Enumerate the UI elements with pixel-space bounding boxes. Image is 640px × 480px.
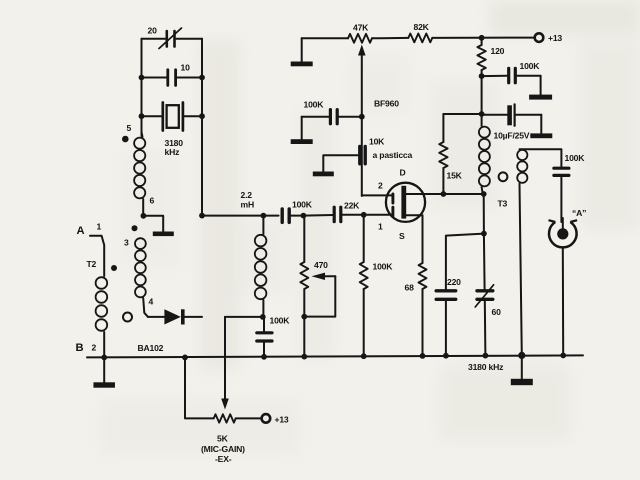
- svg-text:10: 10: [181, 63, 191, 73]
- wire between 47K 82K: [372, 37, 408, 39]
- svg-text:2.2: 2.2: [241, 190, 253, 200]
- label S: [399, 231, 405, 241]
- label 5K: [217, 434, 229, 444]
- label EX: [215, 454, 232, 464]
- label pin 5: [127, 123, 132, 133]
- label MIC-GAIN: [201, 444, 245, 454]
- label 22K: [344, 201, 360, 211]
- svg-text:470: 470: [314, 260, 328, 270]
- label pin 2: [92, 343, 97, 353]
- label pin 4: [149, 297, 154, 307]
- svg-text:100K: 100K: [292, 200, 313, 210]
- ground bus 3180: [511, 355, 533, 385]
- node junction right crystal: [199, 113, 205, 119]
- label BA102: [138, 343, 164, 353]
- node junction oscillator out: [199, 213, 205, 219]
- node tap junction 6: [141, 213, 147, 219]
- label T2: [87, 259, 97, 269]
- potentiometer 5K MIC-GAIN: [214, 414, 261, 422]
- source lead: [406, 215, 422, 263]
- svg-text:“A”: “A”: [572, 208, 586, 218]
- svg-text:BA102: BA102: [138, 343, 164, 353]
- capacitor 10uF/25V: [482, 104, 542, 126]
- ground tap: [153, 232, 174, 237]
- polarity dot pin3: [132, 225, 138, 231]
- label 10K: [369, 137, 385, 147]
- label 3180 kHz bus: [468, 362, 503, 372]
- label +13 mic: [275, 415, 289, 425]
- label 100K output: [565, 153, 586, 163]
- svg-text:10µF/25V: 10µF/25V: [494, 131, 530, 141]
- ground 100K gate2: [291, 117, 313, 144]
- label 120: [491, 46, 505, 56]
- node junction 100K gate1 bus: [361, 353, 367, 359]
- resistor 120: [477, 38, 485, 76]
- gate2 lead: [362, 194, 392, 196]
- node junction drain 15K: [441, 191, 447, 197]
- svg-text:15K: 15K: [447, 171, 463, 181]
- wiper 470: [304, 273, 335, 317]
- node junction T3 prim bottom: [481, 191, 487, 197]
- resistor 82K: [408, 34, 432, 43]
- transistor channel bar: [401, 186, 406, 219]
- inductor T2 winding 5-6: [134, 132, 145, 216]
- wire top of 15K T3: [443, 113, 481, 115]
- wire drain node down: [483, 194, 485, 234]
- scan paper tone: [100, 0, 640, 455]
- svg-text:B: B: [76, 342, 84, 354]
- connector A microphone: [549, 220, 578, 247]
- node junction 470 bottom: [301, 314, 307, 320]
- svg-text:5K: 5K: [217, 434, 229, 444]
- svg-text:6: 6: [150, 196, 155, 206]
- node junction 470 top: [301, 213, 307, 219]
- svg-text:2: 2: [92, 343, 97, 353]
- svg-text:-EX-: -EX-: [215, 454, 232, 464]
- phasing circle T2: [123, 313, 132, 322]
- label 100K c1: [292, 200, 313, 210]
- node junction 2.2mH top: [261, 213, 267, 219]
- label pin 3: [124, 238, 129, 248]
- svg-text:100K: 100K: [373, 262, 394, 272]
- wire T3 sec top: [520, 149, 562, 166]
- node junction 470 bus: [301, 354, 307, 360]
- svg-text:100K: 100K: [270, 316, 291, 326]
- wire terminal A lead: [90, 236, 104, 276]
- label 100K supply: [520, 61, 541, 71]
- wire 82K to +13: [432, 37, 534, 39]
- resistor 15K: [439, 114, 447, 194]
- svg-text:+13: +13: [275, 415, 289, 425]
- inductor T2 winding 3-4: [135, 238, 148, 317]
- wire 47K left leg: [302, 37, 349, 39]
- node junction 120 bottom mid: [479, 111, 485, 117]
- ground pasticca: [313, 172, 334, 177]
- ground B: [93, 357, 115, 387]
- svg-text:82K: 82K: [414, 22, 430, 32]
- wire to 22K: [303, 214, 332, 217]
- svg-text:20: 20: [148, 26, 158, 36]
- wire mic into connector: [562, 218, 564, 229]
- label 470: [314, 260, 328, 270]
- node junction 100K bus: [261, 354, 267, 360]
- label pin 6: [150, 196, 155, 206]
- polarity dot pin5: [122, 136, 129, 143]
- ground 100K supply: [529, 76, 552, 100]
- svg-text:A: A: [77, 225, 85, 237]
- potentiometer 470: [300, 216, 308, 317]
- wire signal line: [202, 215, 279, 217]
- label 20: [148, 26, 158, 36]
- trimmer capacitor 20: [159, 28, 182, 49]
- svg-text:1: 1: [97, 222, 102, 232]
- ground 10uF: [530, 115, 552, 138]
- label 10: [181, 63, 191, 73]
- node junction 120 top: [479, 35, 485, 41]
- label 220: [447, 277, 461, 287]
- svg-text:10K: 10K: [369, 137, 385, 147]
- wire left rail: [141, 39, 143, 136]
- svg-text:+13: +13: [548, 33, 562, 43]
- capacitor 220: [436, 291, 456, 356]
- terminal +13 top: [535, 33, 544, 42]
- capacitor 100K bypass: [257, 317, 272, 357]
- svg-text:5: 5: [127, 123, 132, 133]
- svg-text:47K: 47K: [353, 23, 369, 33]
- node junction right 10: [199, 75, 205, 81]
- label +13 top: [548, 33, 562, 43]
- wire pasticca ground leg: [323, 155, 358, 171]
- wire mic to bus: [562, 248, 564, 356]
- inductor T2 primary 1-2: [96, 277, 108, 357]
- wire wiper to L1 bottom: [225, 316, 263, 318]
- label 60: [492, 307, 502, 317]
- label 100K c2: [270, 316, 291, 326]
- wire bus to 5K: [185, 357, 214, 418]
- trimmer capacitor 60: [475, 234, 493, 356]
- label 100K gate1: [373, 262, 394, 272]
- wire top-left box top: [142, 38, 203, 40]
- wiper 47K arrow up: [358, 45, 366, 117]
- label a pasticca: [373, 150, 413, 160]
- wire right rail: [201, 39, 203, 216]
- wire drain to T3: [443, 193, 483, 195]
- label 3180 kHz crystal: [165, 138, 184, 157]
- wire pin4 to diode: [148, 316, 164, 318]
- svg-text:T2: T2: [87, 259, 97, 269]
- svg-text:100K: 100K: [520, 61, 541, 71]
- capacitor 100K coupling 1: [282, 209, 303, 222]
- wire 470 to bus: [303, 317, 305, 357]
- resistor 100K gate1: [360, 215, 368, 356]
- label 10uF: [494, 131, 530, 141]
- node junction left 10: [139, 75, 145, 81]
- node junction 68 bus: [420, 353, 426, 359]
- node junction mic bus: [560, 353, 566, 359]
- svg-text:T3: T3: [498, 199, 508, 209]
- label 47K: [353, 23, 369, 33]
- svg-text:22K: 22K: [344, 201, 360, 211]
- drain lead: [406, 193, 443, 195]
- wiper 5K arrow: [221, 317, 229, 410]
- label terminal A: [77, 225, 85, 237]
- label D: [400, 168, 406, 178]
- svg-text:(MIC-GAIN): (MIC-GAIN): [201, 444, 245, 454]
- transistor Q1 BF960 body: [386, 183, 425, 222]
- node junction B bus: [101, 355, 107, 361]
- resistor 68: [419, 263, 427, 356]
- wire gate2 down: [361, 117, 363, 196]
- inductor L1 2.2mH: [255, 216, 267, 317]
- node junction left crystal: [139, 113, 145, 119]
- node junction 120 bottom: [479, 73, 485, 79]
- polarity dot T2 primary: [111, 265, 117, 271]
- svg-text:1: 1: [378, 222, 383, 232]
- label pin 1: [97, 222, 102, 232]
- wire 120 junction down: [481, 76, 483, 114]
- svg-text:3: 3: [124, 238, 129, 248]
- terminal +13 mic: [262, 414, 271, 423]
- wire tap to ground: [143, 216, 163, 232]
- svg-text:S: S: [399, 231, 405, 241]
- node junction 5K branch bus: [182, 355, 188, 361]
- svg-text:220: 220: [447, 277, 461, 287]
- node junction 60 bus: [483, 353, 489, 359]
- phasing circle T3: [499, 172, 508, 181]
- svg-text:2: 2: [378, 181, 383, 191]
- node junction T3 sec bus: [518, 352, 525, 359]
- label gate 1: [378, 222, 383, 232]
- label BF960: [374, 99, 399, 109]
- wire ground bus: [87, 355, 583, 357]
- svg-text:60: 60: [492, 307, 502, 317]
- node junction gate2 line: [359, 114, 365, 120]
- svg-text:120: 120: [491, 46, 505, 56]
- label 100K gate2: [304, 100, 325, 110]
- svg-text:100K: 100K: [565, 153, 586, 163]
- label 15K: [447, 171, 463, 181]
- svg-text:68: 68: [405, 283, 415, 293]
- capacitor 100K gate2: [302, 110, 362, 124]
- wire to 220 cap: [446, 234, 484, 290]
- inductor T3 secondary: [517, 150, 527, 356]
- label 82K: [414, 22, 430, 32]
- node junction L1 bottom: [260, 314, 266, 320]
- crystal X1 3180 kHz: [142, 103, 203, 131]
- capacitor 100K supply: [482, 68, 541, 82]
- label A quoted: [572, 208, 586, 218]
- svg-text:D: D: [400, 168, 406, 178]
- capacitor C 10pF: [142, 70, 203, 86]
- svg-text:a pasticca: a pasticca: [373, 150, 413, 160]
- trimmer 10K a pasticca: [360, 147, 365, 164]
- svg-text:kHz: kHz: [165, 147, 180, 157]
- gate2 electrode: [391, 194, 394, 203]
- inductor T3 primary: [479, 114, 490, 194]
- capacitor 22K: [334, 207, 364, 221]
- label 2.2 mH: [241, 190, 254, 210]
- label gate 2: [378, 181, 383, 191]
- potentiometer 47K: [348, 34, 372, 43]
- gate1 electrode: [391, 207, 394, 216]
- label T3: [498, 199, 508, 209]
- label 68: [405, 283, 415, 293]
- node junction 220 60: [481, 231, 487, 237]
- svg-text:4: 4: [149, 297, 154, 307]
- wire gate1: [364, 214, 392, 216]
- svg-text:3180 kHz: 3180 kHz: [468, 362, 503, 372]
- ground 47K: [291, 38, 313, 66]
- node junction 220 bus: [443, 353, 449, 359]
- svg-text:mH: mH: [241, 200, 254, 210]
- svg-text:100K: 100K: [304, 100, 325, 110]
- diode BA102 varactor: [164, 309, 202, 324]
- svg-text:BF960: BF960: [374, 99, 399, 109]
- capacitor 100K output: [554, 168, 569, 222]
- node junction gate1: [361, 212, 367, 218]
- label terminal B: [76, 342, 84, 354]
